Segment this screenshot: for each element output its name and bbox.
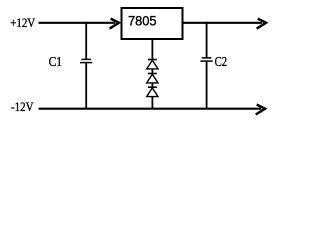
wire regulator ground lead to diode chain (151, 39, 153, 59)
svg-text:C1: C1 (49, 55, 63, 70)
svg-text:C2: C2 (215, 55, 228, 70)
node +12V label (10, 15, 36, 30)
svg-text:+12V: +12V (10, 15, 36, 30)
wire C2 upper lead (206, 22, 208, 58)
wire C1 lower lead (85, 63, 87, 108)
wire D1 to D2 (151, 69, 153, 73)
wire input rail with arrow into regulator (39, 19, 119, 29)
wire C2 lower lead (206, 62, 208, 109)
diode D2 (147, 74, 158, 83)
capacitor C2 (200, 58, 212, 61)
C1 value label (49, 55, 63, 70)
diode D3 (147, 87, 158, 96)
wire bottom rail with arrow (39, 105, 266, 115)
capacitor C1 (80, 59, 92, 62)
diode D1 (147, 60, 158, 69)
wire C1 upper lead (85, 22, 87, 59)
wire D2 to D3 (151, 83, 153, 87)
svg-text:7805: 7805 (128, 13, 157, 29)
wire D3 to bottom rail (151, 97, 153, 109)
node -12V label (11, 99, 34, 114)
wire output rail with arrow (184, 19, 267, 29)
svg-text:-12V: -12V (11, 99, 34, 114)
C2 value label (215, 55, 228, 70)
regulator U1 7805 (122, 8, 183, 39)
